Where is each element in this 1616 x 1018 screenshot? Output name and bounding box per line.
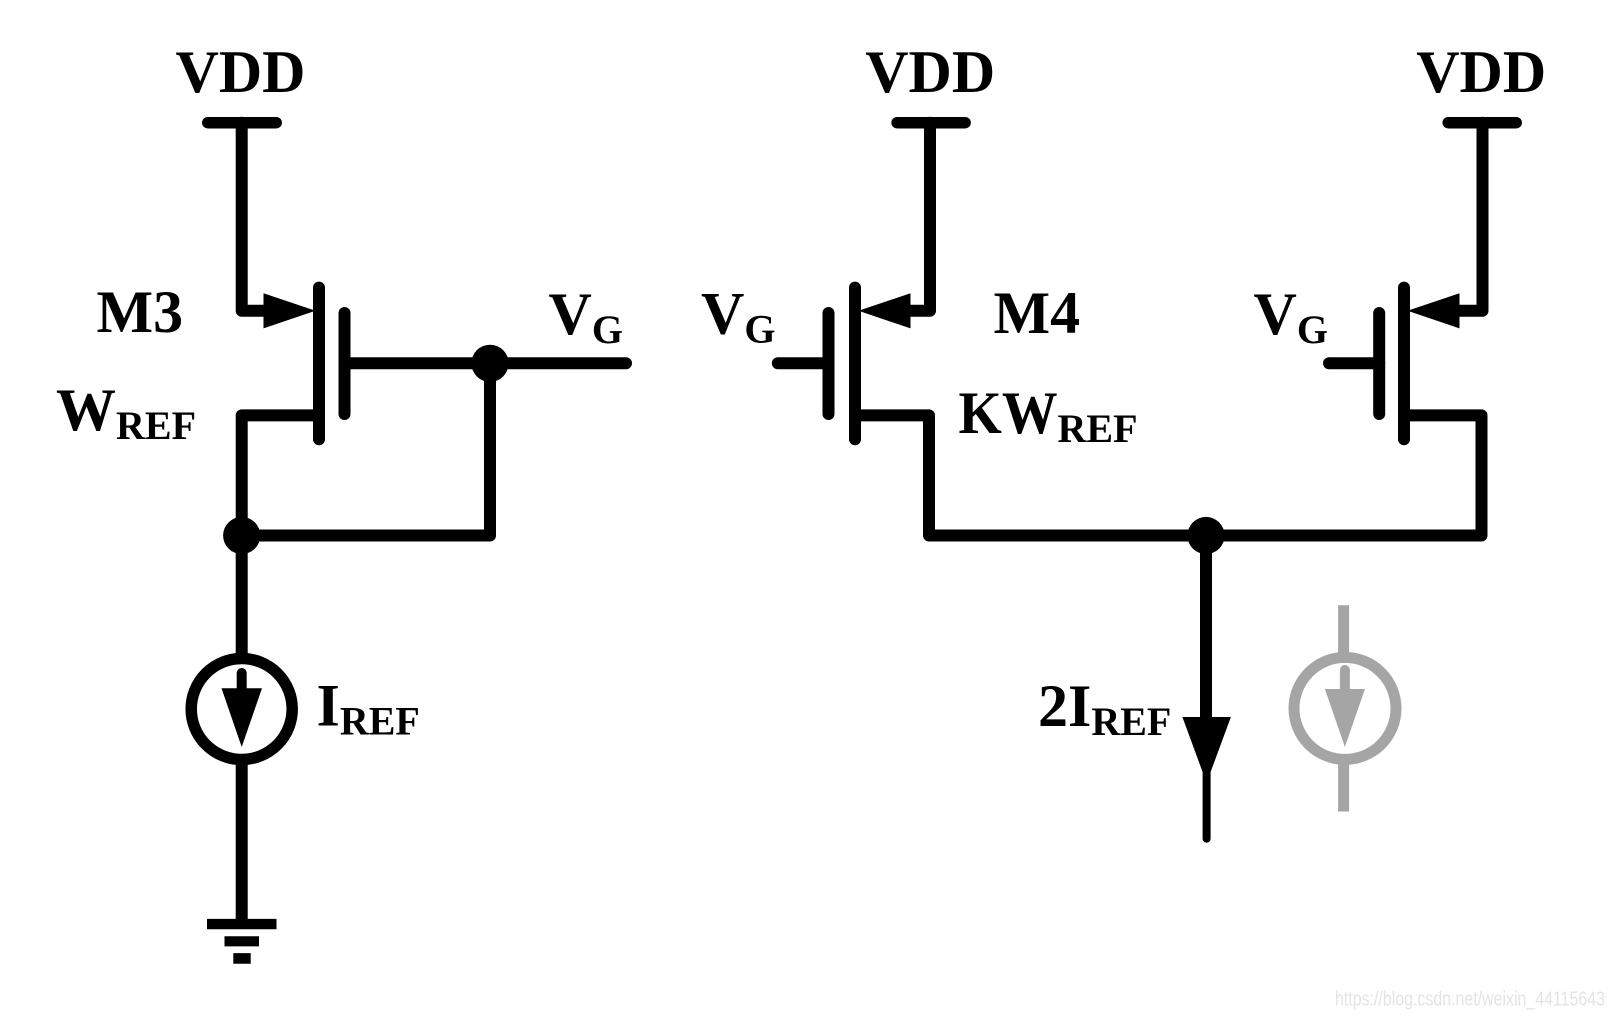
transistor M5 source arrow (pin S) bbox=[1408, 293, 1460, 328]
current source ghost (grey) circle bbox=[1294, 657, 1396, 759]
current source ghost (grey) top stub bbox=[1294, 605, 1396, 811]
wire VDD to M3 source bbox=[242, 123, 268, 311]
current source ghost (grey) arrow bbox=[1340, 670, 1350, 694]
transistor M4 channel line bbox=[849, 288, 861, 440]
transistor M3 channel line bbox=[313, 288, 325, 440]
wire M3 drain down to node A bbox=[242, 415, 313, 535]
transistor M3 source arrow (pin S) bbox=[264, 293, 316, 328]
wire node B down (2IREF branch) bbox=[1200, 536, 1212, 721]
svg-text:M3: M3 bbox=[97, 279, 184, 345]
transistor M4 gate line bbox=[823, 313, 835, 414]
node B junction dot bbox=[1187, 517, 1224, 554]
transistor M3 gate line bbox=[339, 313, 351, 414]
power VDD rail symbol (left) bbox=[208, 117, 276, 129]
wire node VG down and left to node A bbox=[242, 363, 490, 535]
wire VDD to M5 source bbox=[1455, 123, 1483, 311]
transistor M4 source arrow (pin S) bbox=[859, 293, 911, 328]
current source ghost (grey) bottom stub bbox=[1338, 763, 1349, 812]
wire VG to M4 gate bbox=[778, 357, 829, 369]
svg-text:VDD: VDD bbox=[1416, 39, 1546, 105]
svg-text:VDD: VDD bbox=[176, 39, 306, 105]
ground symbol bbox=[207, 924, 277, 958]
current source IREF arrow bbox=[237, 673, 247, 692]
current arrow 2IREF bbox=[1182, 717, 1231, 772]
wire VDD to M4 source bbox=[906, 123, 930, 311]
wire M3 gate to node VG bbox=[345, 357, 627, 369]
wire M4 drain down and right to node B bbox=[861, 415, 1206, 535]
wire VG to M5 gate bbox=[1329, 357, 1379, 369]
wire current source to ground bbox=[236, 760, 248, 920]
svg-text:VDD: VDD bbox=[865, 39, 995, 105]
current source IREF circle bbox=[191, 659, 292, 760]
svg-text:M4: M4 bbox=[994, 280, 1081, 346]
wire node A to current source IREF bbox=[236, 536, 248, 657]
power VDD rail symbol (middle) bbox=[897, 117, 965, 129]
transistor M5 gate line bbox=[1373, 313, 1385, 414]
svg-text:https://blog.csdn.net/weixin_4: https://blog.csdn.net/weixin_44115643 bbox=[1335, 988, 1605, 1011]
node A junction dot bbox=[223, 517, 260, 554]
node VG junction dot bbox=[471, 345, 508, 382]
power VDD rail symbol (right) bbox=[1448, 117, 1516, 129]
wire M5 drain down and left to node B bbox=[1206, 415, 1482, 535]
transistor M5 channel line bbox=[1398, 288, 1410, 440]
